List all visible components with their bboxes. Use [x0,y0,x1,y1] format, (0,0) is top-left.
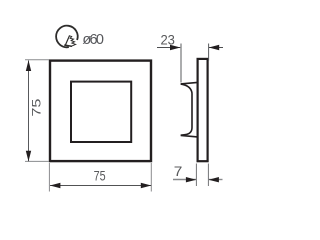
extension line 23 right [208,44,210,61]
arrow up [26,60,31,71]
extension line 23 left [180,44,182,83]
svg-text:75: 75 [32,99,44,117]
svg-text:ø60: ø60 [82,32,104,48]
arrow 23 left [170,45,180,50]
spring clip bottom edge [181,135,198,137]
dimension line 23 left tail [157,47,180,49]
extension line top-left [25,59,49,61]
arrow 23 right [209,45,219,50]
svg-text:23: 23 [160,32,175,48]
drill bit icon [65,36,76,47]
hole-cut icon circle [56,26,78,48]
svg-text:75: 75 [94,167,106,183]
spring clip top edge [181,82,198,84]
side view face plate [198,59,208,161]
dimension line 7 left tail [173,179,196,181]
arrow down [26,151,31,162]
extension line 7 right [207,164,209,187]
arrow right [141,183,152,188]
dimension line left 75 [28,61,30,162]
front view outer square [50,61,151,162]
spring clip body [181,84,192,135]
arrow left [50,183,61,188]
front view inner square [71,82,131,142]
extension line bottom dim left [48,163,50,192]
dimension line bottom 75 [50,185,151,187]
dimension line 7 right tail [209,179,223,181]
arrow 7 right [209,177,219,182]
dimension line 23 right tail [209,47,223,49]
extension line bottom-left [25,160,49,162]
arrow 7 left [186,177,196,182]
svg-text:7: 7 [174,163,183,179]
extension line bottom dim right [150,163,152,192]
extension line 7 left [195,164,197,187]
